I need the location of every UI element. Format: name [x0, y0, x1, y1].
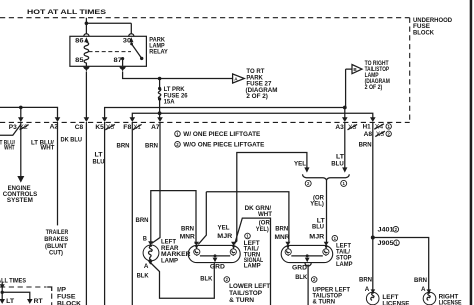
node: fuse feed junction: [158, 77, 162, 81]
wire: bridge lamp2 MNR to lamp3 MNR: [198, 192, 289, 245]
svg-text:LT: LT: [95, 151, 103, 158]
pin label H1 / X4: [363, 124, 384, 131]
arrow into lamp1 B: [148, 241, 153, 245]
label A terminal: [144, 263, 149, 270]
connector dashed line (bottom of underhood fuse block): [0, 121, 410, 123]
svg-text:A7: A7: [151, 124, 160, 131]
svg-text:CUT): CUT): [49, 250, 63, 257]
arrow into lamp3 MJR: [324, 242, 329, 246]
wire: lamp1 ground to ground bus: [150, 263, 214, 299]
svg-text:HOT AT ALL TIMES: HOT AT ALL TIMES: [27, 9, 107, 16]
terminal dome pin 87: [120, 66, 125, 71]
off-page connector A (to RT PARK FUSE 27): [233, 74, 245, 83]
terminal dome pin 30: [129, 34, 134, 43]
label B terminal: [143, 236, 148, 243]
label A right license: [421, 286, 426, 293]
svg-text:BRN: BRN: [117, 142, 130, 149]
svg-text:BLU: BLU: [331, 160, 344, 167]
wire: fuse to A7: [159, 113, 161, 118]
label PARK LAMP RELAY: [149, 36, 168, 55]
svg-text:A3: A3: [335, 124, 344, 131]
pin label P3 / X2: [9, 124, 29, 131]
label LT fuse: [6, 298, 14, 305]
svg-text:LAMP: LAMP: [161, 258, 178, 265]
svg-text:BRN: BRN: [359, 141, 372, 148]
svg-text:LAMP: LAMP: [244, 263, 261, 270]
hot at all times dashed bus line (fuse block top): [0, 17, 410, 19]
wire: P3 to engine controls: [20, 122, 22, 177]
Y-brace merging YEL and LT BLU: [303, 174, 350, 180]
svg-text:BRN: BRN: [359, 276, 372, 283]
svg-text:J401: J401: [378, 227, 395, 234]
arrow out of lamp1 A: [148, 261, 153, 265]
wire: bus2 F8 to H1: [132, 113, 372, 118]
relay internal dashed link: [89, 51, 132, 53]
svg-text:RELAY: RELAY: [149, 49, 168, 56]
I/P fuse block: hot at all times label: [0, 278, 26, 285]
label I/P FUSE BLOCK: [57, 287, 82, 305]
arrow into lamp2 MJR: [231, 242, 236, 246]
svg-text:LAMP: LAMP: [336, 261, 353, 268]
svg-text:K5: K5: [95, 124, 104, 131]
pin arrow K5: [102, 117, 108, 122]
svg-text:& TURN: & TURN: [229, 297, 254, 304]
wire: A2 to trailer brakes (blunt cut): [57, 122, 59, 225]
wire: dk grn/wht from lamp2 MJR up and to Y-brace: [234, 153, 307, 245]
inline connector on lamp3 ground: [305, 263, 311, 266]
svg-text:2 OF 2): 2 OF 2): [246, 93, 268, 100]
pin label 85: [75, 57, 84, 64]
wire: merged output of brace to lamp3 MJR: [325, 180, 327, 245]
lamp E4: LEFT LICENSE lamp: [366, 289, 379, 304]
svg-text:SYSTEM: SYSTEM: [7, 197, 33, 204]
lamp E1: LEFT REAR MARKER LAMP bulb: [143, 244, 159, 261]
svg-text:GRD: GRD: [210, 264, 226, 271]
label A left license: [365, 286, 370, 293]
wire: A7 brn down to left rear marker lamp: [152, 122, 161, 244]
label DK GRN/WHT (OR YEL) on bypass: [245, 205, 273, 233]
svg-text:YEL): YEL): [310, 200, 324, 207]
lamp E5: RIGHT LICENSE lamp: [423, 289, 436, 304]
svg-text:BRN: BRN: [145, 142, 158, 149]
svg-text:BLK: BLK: [137, 272, 150, 279]
svg-text:H1: H1: [363, 124, 372, 131]
label ENGINE CONTROLS SYSTEM: [3, 185, 38, 204]
pin arrow A7: [157, 117, 163, 122]
I/P fuse block dashed border: [0, 287, 52, 305]
lamp2 description text: [244, 233, 264, 269]
label UNDERHOOD FUSE BLOCK: [413, 17, 453, 37]
label GRD BLK at lamp3 ground: [292, 264, 308, 281]
svg-text:85: 85: [75, 57, 84, 64]
svg-text:F8: F8: [123, 124, 132, 131]
label MJR at lamp3: [309, 234, 325, 241]
pin label F8 / X1: [123, 124, 141, 131]
wire color label LT BLU/WHT at P3: [0, 140, 15, 152]
legend note 1: W/ ONE PIECE LIFTGATE: [175, 131, 261, 138]
svg-text:BLOCK: BLOCK: [413, 29, 435, 36]
arrow into lamp3 MNR: [285, 242, 290, 246]
label LT BLU at A3 wire: [331, 153, 344, 167]
label LT BLU on merged wire: [312, 218, 325, 231]
label UPPER LEFT TAIL/STOP & TURN: [313, 286, 351, 305]
lamp3 description text: [332, 236, 353, 268]
label BRN MNR at lamp2: [180, 225, 196, 240]
svg-text:HOT AT ALL TIMES: HOT AT ALL TIMES: [0, 278, 26, 285]
svg-text:& TURN: & TURN: [313, 299, 336, 305]
relay U1: PARK LAMP RELAY box: [70, 36, 146, 66]
wire color label LT BLU at K5: [93, 151, 106, 165]
svg-text:B: B: [143, 236, 148, 243]
node: fuse output on bus2: [158, 111, 162, 115]
underhood fuse block right dashed border: [409, 18, 411, 123]
wire: bridge lamp1 B to lamp2 MNR: [151, 191, 196, 244]
svg-text:BLU: BLU: [93, 158, 106, 165]
pin label A2: [50, 124, 59, 131]
wire: B connector to bus1/A3: [346, 69, 352, 107]
wire: to LT park fuse: [0, 292, 5, 304]
pin label 30: [123, 38, 132, 45]
svg-text:YEL): YEL): [256, 226, 269, 233]
label RT fuse: [34, 298, 43, 305]
svg-text:LICENSE: LICENSE: [439, 300, 462, 305]
svg-text:W/ ONE PIECE LIFTGATE: W/ ONE PIECE LIFTGATE: [183, 131, 260, 138]
pin label K5 / X5: [95, 124, 115, 131]
lamp E3: LEFT TAIL/STOP LAMP: [281, 245, 333, 263]
label BRN left license: [359, 276, 372, 283]
svg-text:W/O ONE PIECE LIFTGATE: W/O ONE PIECE LIFTGATE: [183, 141, 264, 148]
pin arrow A3: [342, 117, 348, 122]
label TRAILER BRAKES (BLUNT CUT): [44, 229, 68, 256]
arrow into brace right: [342, 167, 347, 172]
pin label 86: [75, 38, 84, 45]
pin label A8 / X3: [364, 131, 385, 138]
svg-text:LT: LT: [336, 153, 344, 160]
pin label 87: [114, 57, 123, 64]
label (OR YEL) on merged wire: [310, 194, 324, 207]
svg-text:MNR: MNR: [275, 234, 291, 241]
label BRN right license: [414, 277, 427, 284]
svg-text:BRN: BRN: [275, 226, 288, 233]
svg-text:86: 86: [75, 38, 84, 45]
arrow into brace left: [304, 167, 309, 172]
svg-text:WHT: WHT: [41, 144, 55, 151]
svg-text:BLK: BLK: [295, 274, 308, 281]
pin arrow F8: [130, 117, 136, 122]
node: feed junction: [85, 22, 89, 26]
lamp E2: LEFT TAIL/TURN SIGNAL LAMP: [188, 245, 240, 263]
label HOT AT ALL TIMES: [27, 9, 107, 16]
wire color label BRN at A7: [145, 142, 158, 149]
fuse F26: LT PRK FUSE 26 15A: [158, 79, 161, 114]
legend note 2: W/O ONE PIECE LIFTGATE: [175, 141, 265, 148]
wire: down to A3: [344, 108, 346, 119]
svg-text:BRN: BRN: [181, 225, 194, 232]
svg-text:LT: LT: [6, 298, 14, 305]
wire: feed into I/P fuse block: [0, 282, 5, 293]
note circle 2 at lower left wire: [224, 277, 230, 283]
svg-text:LICENSE: LICENSE: [382, 301, 409, 305]
wire: feed from hot bus to relay: [86, 18, 131, 34]
note circle 1 below brace right: [341, 180, 347, 186]
wire: A3 down to brace right: [344, 122, 346, 169]
svg-text:YEL: YEL: [294, 160, 306, 167]
label RIGHT LICENSE: [439, 293, 462, 305]
pin arrow P3: [18, 117, 24, 122]
svg-text:BLK: BLK: [200, 276, 213, 283]
note circle 2 below brace left: [305, 180, 311, 186]
wire color label DK BLU at C8: [61, 137, 83, 144]
right page border: [470, 0, 473, 305]
label LEFT LICENSE: [382, 294, 409, 305]
label LEFT REAR MARKER LAMP: [161, 239, 191, 265]
svg-text:BRN: BRN: [414, 277, 427, 284]
note circle 2 at A8: [386, 131, 391, 136]
label YEL on brace feed: [294, 160, 306, 167]
label LT PRK FUSE 26 15A: [164, 86, 189, 106]
pin label A3 / X3: [335, 124, 357, 131]
wire: to RT park fuse: [2, 292, 32, 304]
svg-text:A8: A8: [364, 131, 373, 138]
svg-text:YEL: YEL: [218, 224, 230, 231]
wire: relay pin85 to C8: [85, 72, 87, 119]
arrow into lamp2 MNR: [194, 242, 199, 246]
wire color label LT BLU/WHT at A2: [31, 140, 55, 152]
note circle 2 at J401: [393, 227, 399, 233]
wire: C8 dk blu down to bottom: [85, 122, 87, 305]
wire: branch to right license lamp: [373, 238, 429, 290]
wire: lamp3 ground down to bottom: [307, 265, 309, 305]
svg-text:MNR: MNR: [180, 234, 196, 241]
wire: branch to P3: [20, 107, 22, 118]
svg-text:2 OF 2): 2 OF 2): [365, 84, 383, 91]
splice J905: [378, 240, 395, 247]
pin arrow H1: [370, 117, 376, 122]
label LOWER LEFT TAIL/STOP & TURN: [229, 283, 270, 304]
pin arrow C8: [84, 117, 90, 122]
terminal dome pin 85: [84, 66, 89, 71]
wire: F8 brn down to bottom: [131, 122, 133, 305]
wire: bus1 K5 to A3: [105, 108, 345, 119]
arrow to engine controls: [17, 176, 24, 183]
svg-text:J905: J905: [378, 240, 395, 247]
svg-text:BLOCK: BLOCK: [57, 300, 82, 305]
relay coil: [84, 42, 89, 66]
svg-text:A: A: [365, 286, 370, 293]
wire: K5 lt blu down to bottom: [104, 122, 106, 305]
node on left park bus: [19, 106, 23, 110]
svg-text:C8: C8: [75, 124, 84, 131]
label YEL MJR at lamp2: [217, 224, 233, 240]
label BLK at lamp1: [137, 272, 150, 279]
pin label A7: [151, 124, 160, 131]
pin arrow A2: [55, 117, 61, 122]
label BRN at lamp1 B: [136, 217, 149, 224]
svg-text:RT: RT: [34, 298, 43, 305]
node: J splice dot: [371, 236, 375, 240]
wire: H1/A8 brn down to junctions: [372, 122, 374, 238]
wire color label BRN at F8: [117, 142, 130, 149]
wire: P3 branch to left edge: [0, 125, 21, 136]
svg-text:DK BLU: DK BLU: [61, 137, 83, 144]
wire: left park bus P3/A2: [0, 107, 58, 118]
off-page connector B (to RIGHT TAIL/STOP LAMP): [352, 65, 362, 74]
label TO RT PARK FUSE 27: [246, 68, 278, 100]
svg-text:WHT: WHT: [4, 144, 15, 151]
label TO RIGHT TAIL/STOP LAMP: [365, 60, 390, 91]
note circle 1 at J905: [394, 240, 400, 246]
relay switch blade: [130, 42, 143, 60]
svg-text:15A: 15A: [164, 99, 176, 106]
wire color label BRN at H1: [359, 141, 372, 148]
svg-text:BRN: BRN: [136, 217, 149, 224]
note circle 2 at upper left wire: [311, 277, 317, 283]
label GRD BLK at lamp2 ground: [200, 264, 225, 283]
node: I/P feed junction: [1, 291, 4, 294]
wire: to left license lamp: [372, 238, 374, 290]
label BRN MNR at lamp3: [275, 226, 291, 241]
pin label C8: [75, 124, 84, 131]
svg-text:BLU: BLU: [312, 223, 325, 230]
svg-text:WHT: WHT: [258, 211, 272, 218]
relay switch contact 87: [121, 57, 124, 66]
wire: relay pin87 to fuse feed: [123, 72, 233, 79]
svg-text:MJR: MJR: [217, 233, 233, 240]
wire: lamp2 MJR bypass to lower lamp: [235, 218, 271, 305]
svg-text:MJR: MJR: [309, 234, 325, 241]
note circle 1 at H1: [386, 124, 391, 129]
svg-text:A: A: [421, 286, 426, 293]
splice J401: [378, 227, 395, 234]
svg-text:A: A: [144, 263, 149, 270]
terminal dome pin 86: [84, 34, 89, 43]
node: bus1 to A3 junction: [343, 106, 347, 110]
